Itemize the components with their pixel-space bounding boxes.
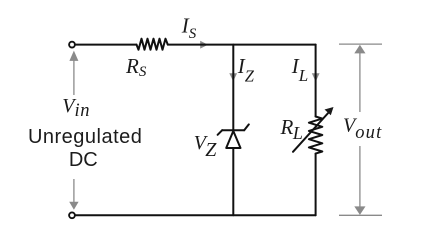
- svg-text:Vin: Vin: [62, 95, 90, 121]
- svg-text:IL: IL: [291, 54, 308, 85]
- svg-text:RS: RS: [125, 54, 147, 80]
- svg-text:VZ: VZ: [194, 132, 217, 161]
- svg-text:Unregulated: Unregulated: [28, 126, 142, 148]
- svg-text:DC: DC: [69, 149, 98, 171]
- svg-text:IZ: IZ: [237, 54, 255, 85]
- svg-text:RL: RL: [280, 115, 303, 143]
- svg-text:IS: IS: [181, 13, 197, 42]
